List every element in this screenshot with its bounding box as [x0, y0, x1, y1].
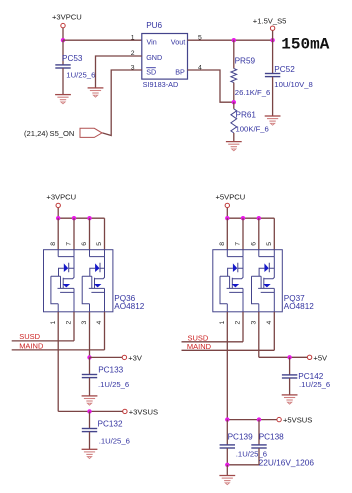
- ground (below PC139/PC138): [219, 476, 235, 485]
- wire: PQ37 pin 4 down to MAIND: [273, 312, 275, 351]
- svg-text:PR59: PR59: [235, 56, 256, 65]
- svg-text:PC52: PC52: [274, 65, 295, 74]
- ground (below PC53): [55, 95, 71, 104]
- svg-text:4: 4: [198, 64, 202, 71]
- svg-text:8: 8: [50, 242, 57, 246]
- svg-text:2: 2: [235, 320, 242, 324]
- capacitor PC53: [55, 40, 95, 94]
- pin numbers 8 7 6 5 (PQ36 top): [50, 242, 103, 246]
- svg-text:10U/10V_8: 10U/10V_8: [274, 80, 312, 89]
- svg-text:SD: SD: [146, 68, 156, 77]
- power terminal +5VSUS: [277, 416, 312, 425]
- power terminal +3VPCU (PU6 input): [52, 13, 82, 41]
- capacitor PC132 .1U/25_6: [82, 411, 130, 449]
- power terminal +3VPCU (PQ36): [46, 193, 76, 219]
- svg-text:PC138: PC138: [259, 432, 284, 441]
- svg-text:6: 6: [251, 242, 258, 246]
- net SUSD (left): [12, 332, 74, 341]
- svg-text:PU6: PU6: [146, 21, 162, 30]
- power terminal +3VSUS: [123, 408, 158, 417]
- svg-text:6: 6: [81, 242, 88, 246]
- node: Vout/PR59 junction: [232, 38, 236, 42]
- node: ground junction: [225, 463, 229, 467]
- svg-text:2: 2: [66, 320, 73, 324]
- svg-text:PR61: PR61: [236, 111, 257, 120]
- svg-text:PC139: PC139: [228, 432, 253, 441]
- svg-text:+3V: +3V: [128, 353, 143, 362]
- resistor PR61 100K/F_6: [231, 102, 269, 141]
- svg-text:Vin: Vin: [147, 38, 157, 47]
- node: +3VPCU junction: [61, 38, 65, 42]
- svg-text:.1U/25_6: .1U/25_6: [99, 437, 130, 446]
- svg-text:3: 3: [131, 64, 135, 71]
- svg-text:SUSD: SUSD: [19, 332, 40, 341]
- svg-text:GND: GND: [146, 53, 162, 62]
- ground (below PC52): [265, 116, 281, 125]
- node: +3VSUS junction: [87, 409, 91, 413]
- svg-text:150mA: 150mA: [281, 36, 329, 54]
- node junctions on +5VPCU rail: [225, 216, 261, 220]
- wire: PU6 pin 3 SD to S5_ON: [102, 70, 142, 136]
- op-amp/regulator U PU6 SI9183-AD: [142, 21, 188, 89]
- svg-text:AO4812: AO4812: [114, 302, 144, 311]
- svg-text:1: 1: [219, 320, 226, 324]
- wire: +3VSUS row: [58, 410, 122, 412]
- ground (below PC142): [282, 395, 298, 404]
- pin numbers 8 7 6 5 (PQ37 top): [219, 242, 273, 246]
- power terminal +5V: [307, 353, 328, 362]
- node: +5VSUS junction at PC139: [225, 417, 229, 421]
- svg-text:7: 7: [235, 242, 242, 246]
- power terminal +3V: [90, 353, 143, 362]
- svg-text:100K/F_6: 100K/F_6: [236, 124, 269, 133]
- svg-text:26.1K/F_6: 26.1K/F_6: [235, 88, 270, 97]
- ground (below PC133): [82, 396, 98, 405]
- node: PR59/PR61/BP junction: [232, 100, 236, 104]
- svg-text:SI9183-AD: SI9183-AD: [143, 80, 179, 89]
- power terminal +1.5V_S5: [253, 16, 287, 40]
- svg-text:1: 1: [50, 320, 57, 324]
- wire: PU6 pin 5 Vout to +1.5V_S5: [188, 39, 273, 41]
- node junctions on +3VPCU rail: [56, 216, 92, 220]
- node: +1.5V_S5 junction: [270, 38, 274, 42]
- wire: PQ36 pin 4 down to MAIND: [104, 312, 106, 350]
- wire: +3VPCU rail to PQ36 drains: [58, 217, 104, 219]
- wire: +5V row: [259, 356, 307, 358]
- svg-text:PC53: PC53: [62, 54, 83, 63]
- power terminal +5VPCU (PQ37): [216, 193, 246, 219]
- svg-text:+5VSUS: +5VSUS: [283, 416, 312, 425]
- capacitor PC52 10U/10V_8: [265, 40, 313, 116]
- net MAIND (right): [182, 342, 275, 351]
- wire: +5VSUS row: [227, 419, 276, 421]
- svg-text:+3VPCU: +3VPCU: [52, 13, 82, 22]
- svg-text:5: 5: [266, 242, 273, 246]
- svg-text:.1U/25_6: .1U/25_6: [98, 380, 129, 389]
- svg-text:1: 1: [131, 34, 135, 41]
- svg-text:AO4812: AO4812: [284, 302, 314, 311]
- svg-text:22U/16V_1206: 22U/16V_1206: [259, 457, 315, 467]
- svg-text:+3VSUS: +3VSUS: [129, 408, 158, 417]
- wire: PQ37 pin 3 down to +5V node: [258, 312, 260, 358]
- wire: +3VPCU to PU6 pin 1: [63, 39, 142, 41]
- svg-text:+1.5V_S5: +1.5V_S5: [253, 16, 287, 25]
- svg-text:3: 3: [251, 320, 258, 324]
- svg-text:+5V: +5V: [313, 353, 328, 362]
- svg-text:7: 7: [66, 242, 73, 246]
- wires: rail down to PQ37 pins 8,7,6,5: [227, 218, 274, 250]
- svg-text:PC133: PC133: [98, 365, 123, 374]
- net SUSD (right): [182, 334, 244, 343]
- node: PC142 junction: [287, 355, 291, 359]
- svg-text:PC132: PC132: [98, 420, 123, 429]
- svg-text:(21,24): (21,24): [24, 129, 49, 138]
- ground (below PR61): [226, 142, 242, 151]
- svg-text:+3VPCU: +3VPCU: [46, 193, 76, 202]
- svg-text:BP: BP: [175, 68, 185, 77]
- svg-text:3: 3: [81, 320, 88, 324]
- wires: rail down to PQ36 pins 8,7,6,5: [58, 218, 104, 250]
- wire: PU6 pin 2 GND: [96, 56, 142, 88]
- svg-text:8: 8: [219, 242, 226, 246]
- wire: PU6 pin 4 BP to PR59/PR61 node: [188, 70, 234, 102]
- wire: PQ36 pin 1 down to +3VSUS row: [57, 312, 59, 412]
- transistor PQ36 AO4812 (dual MOSFET): [44, 250, 145, 312]
- node: +3V junction: [87, 355, 91, 359]
- svg-text:+5VPCU: +5VPCU: [216, 193, 246, 202]
- wire: PC138 bottom to PC139 bottom: [227, 464, 259, 466]
- net MAIND (left): [12, 342, 105, 351]
- svg-text:1U/25_6: 1U/25_6: [66, 71, 95, 80]
- wire: PQ36 pin 3 down to +3V node: [89, 312, 91, 358]
- svg-text:4: 4: [96, 320, 103, 324]
- wire: +5VPCU rail to PQ37 drains: [227, 217, 274, 219]
- svg-text:4: 4: [266, 320, 273, 324]
- capacitor PC142 .1U/25_6: [282, 357, 330, 394]
- svg-text:.1U/25_6: .1U/25_6: [299, 380, 330, 389]
- ground (PU6 pin 2): [88, 88, 104, 97]
- wire: down to ground: [226, 465, 228, 476]
- svg-text:2: 2: [131, 50, 135, 57]
- off-page connector S5_ON: [24, 128, 102, 138]
- capacitor PC133 .1U/25_6: [82, 357, 129, 395]
- capacitor PC138 22U/16V_1206: [251, 420, 314, 468]
- wire: PQ37 pin 2 down to SUSD: [242, 312, 244, 342]
- svg-text:5: 5: [96, 242, 103, 246]
- node: +5VSUS junction at PC138: [257, 417, 261, 421]
- resistor PR59 26.1K/F_6: [231, 40, 270, 102]
- ground (below PC132): [82, 449, 98, 458]
- svg-text:S5_ON: S5_ON: [50, 129, 75, 138]
- wire: PQ37 pin 1 down to +5VSUS row: [226, 312, 228, 420]
- pin numbers 1 2 3 4 (PQ36 bottom): [50, 320, 103, 324]
- capacitor PC139 .1U/25_6: [220, 420, 267, 465]
- transistor PQ37 AO4812 (dual MOSFET): [213, 250, 314, 312]
- svg-text:5: 5: [198, 34, 202, 41]
- pin numbers 1 2 3 4 (PQ37 bottom): [219, 320, 273, 324]
- wire: PQ36 pin 2 down to SUSD: [73, 312, 75, 341]
- svg-text:Vout: Vout: [171, 38, 185, 47]
